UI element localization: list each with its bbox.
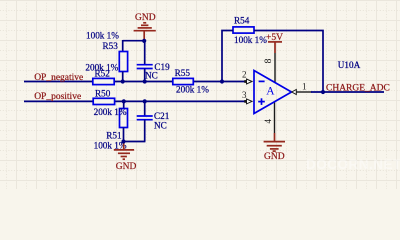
power +5V port xyxy=(266,33,283,53)
ground GND top power port xyxy=(134,13,156,41)
svg-text:R51: R51 xyxy=(106,131,122,141)
resistor R55 xyxy=(173,68,209,95)
resistor R53 xyxy=(86,30,128,81)
resistor R51 xyxy=(94,101,128,150)
svg-text:OP_negative: OP_negative xyxy=(34,73,83,83)
svg-text:200k 1%: 200k 1% xyxy=(176,84,209,94)
svg-text:3: 3 xyxy=(242,90,247,100)
wire R54 left leg down to pin2 net xyxy=(222,31,233,82)
capacitor C19 xyxy=(137,41,170,82)
svg-text:4: 4 xyxy=(263,119,273,124)
ground GND op-amp power port xyxy=(264,133,285,162)
svg-text:NC: NC xyxy=(154,121,167,131)
pin 2 inverting input xyxy=(242,70,252,85)
svg-text:GND: GND xyxy=(135,13,156,23)
svg-text:R54: R54 xyxy=(234,16,250,26)
svg-text:GND: GND xyxy=(116,162,137,172)
wire R54 right leg to output feedback xyxy=(254,31,323,93)
wire output CHARGE_ADC net xyxy=(311,91,384,93)
junction node GND top xyxy=(142,39,146,43)
svg-text:2: 2 xyxy=(242,70,247,80)
wire R53 top to GND xyxy=(123,40,145,52)
resistor R50 xyxy=(93,88,114,104)
junction node R53/neg xyxy=(121,79,125,83)
junction node R54 leg/neg xyxy=(220,79,224,83)
junction node C19/neg xyxy=(143,79,147,83)
op-amp U1 triangle body xyxy=(254,71,292,114)
op-amp U10A power pin 8 xyxy=(264,53,275,82)
svg-text:100k 1%: 100k 1% xyxy=(86,30,119,40)
svg-text:C21: C21 xyxy=(154,111,170,121)
pin 3 non-inverting input xyxy=(242,90,252,104)
svg-text:A: A xyxy=(266,85,275,97)
svg-text:R52: R52 xyxy=(95,69,111,79)
op-amp U10A power pin 4 xyxy=(263,101,275,133)
op-amp plus input marker xyxy=(258,98,265,105)
ground GND bottom-left power port xyxy=(114,142,137,173)
junction node C21/pos xyxy=(143,99,147,103)
svg-text:U10A: U10A xyxy=(338,60,361,70)
op-amp minus input marker xyxy=(259,80,265,82)
svg-text:R50: R50 xyxy=(95,88,111,98)
svg-text:OP_positive: OP_positive xyxy=(34,92,81,102)
svg-text:DOCORN.NET: DOCORN.NET xyxy=(306,157,400,172)
svg-text:CHARGE_ADC: CHARGE_ADC xyxy=(326,83,390,93)
capacitor C21 xyxy=(137,101,170,141)
svg-text:100k 1%: 100k 1% xyxy=(234,35,267,45)
svg-text:NC: NC xyxy=(145,71,158,81)
resistor R54 xyxy=(233,16,267,45)
junction node C21/R51/GND xyxy=(121,139,125,143)
wire OP_negative net horizontal xyxy=(24,81,247,83)
svg-text:R55: R55 xyxy=(175,68,191,78)
svg-text:8: 8 xyxy=(264,58,274,63)
svg-text:200k 1%: 200k 1% xyxy=(94,107,127,117)
wire C21 bottom to R51 bottom xyxy=(124,141,146,143)
pin 1 output xyxy=(292,82,312,95)
svg-text:1: 1 xyxy=(302,82,307,92)
svg-text:R53: R53 xyxy=(103,41,119,51)
wire OP_positive net horizontal xyxy=(24,100,247,102)
junction node R51/pos xyxy=(122,99,126,103)
resistor R52 xyxy=(85,63,118,85)
svg-text:GND: GND xyxy=(264,152,285,162)
junction node feedback/output xyxy=(321,90,325,94)
